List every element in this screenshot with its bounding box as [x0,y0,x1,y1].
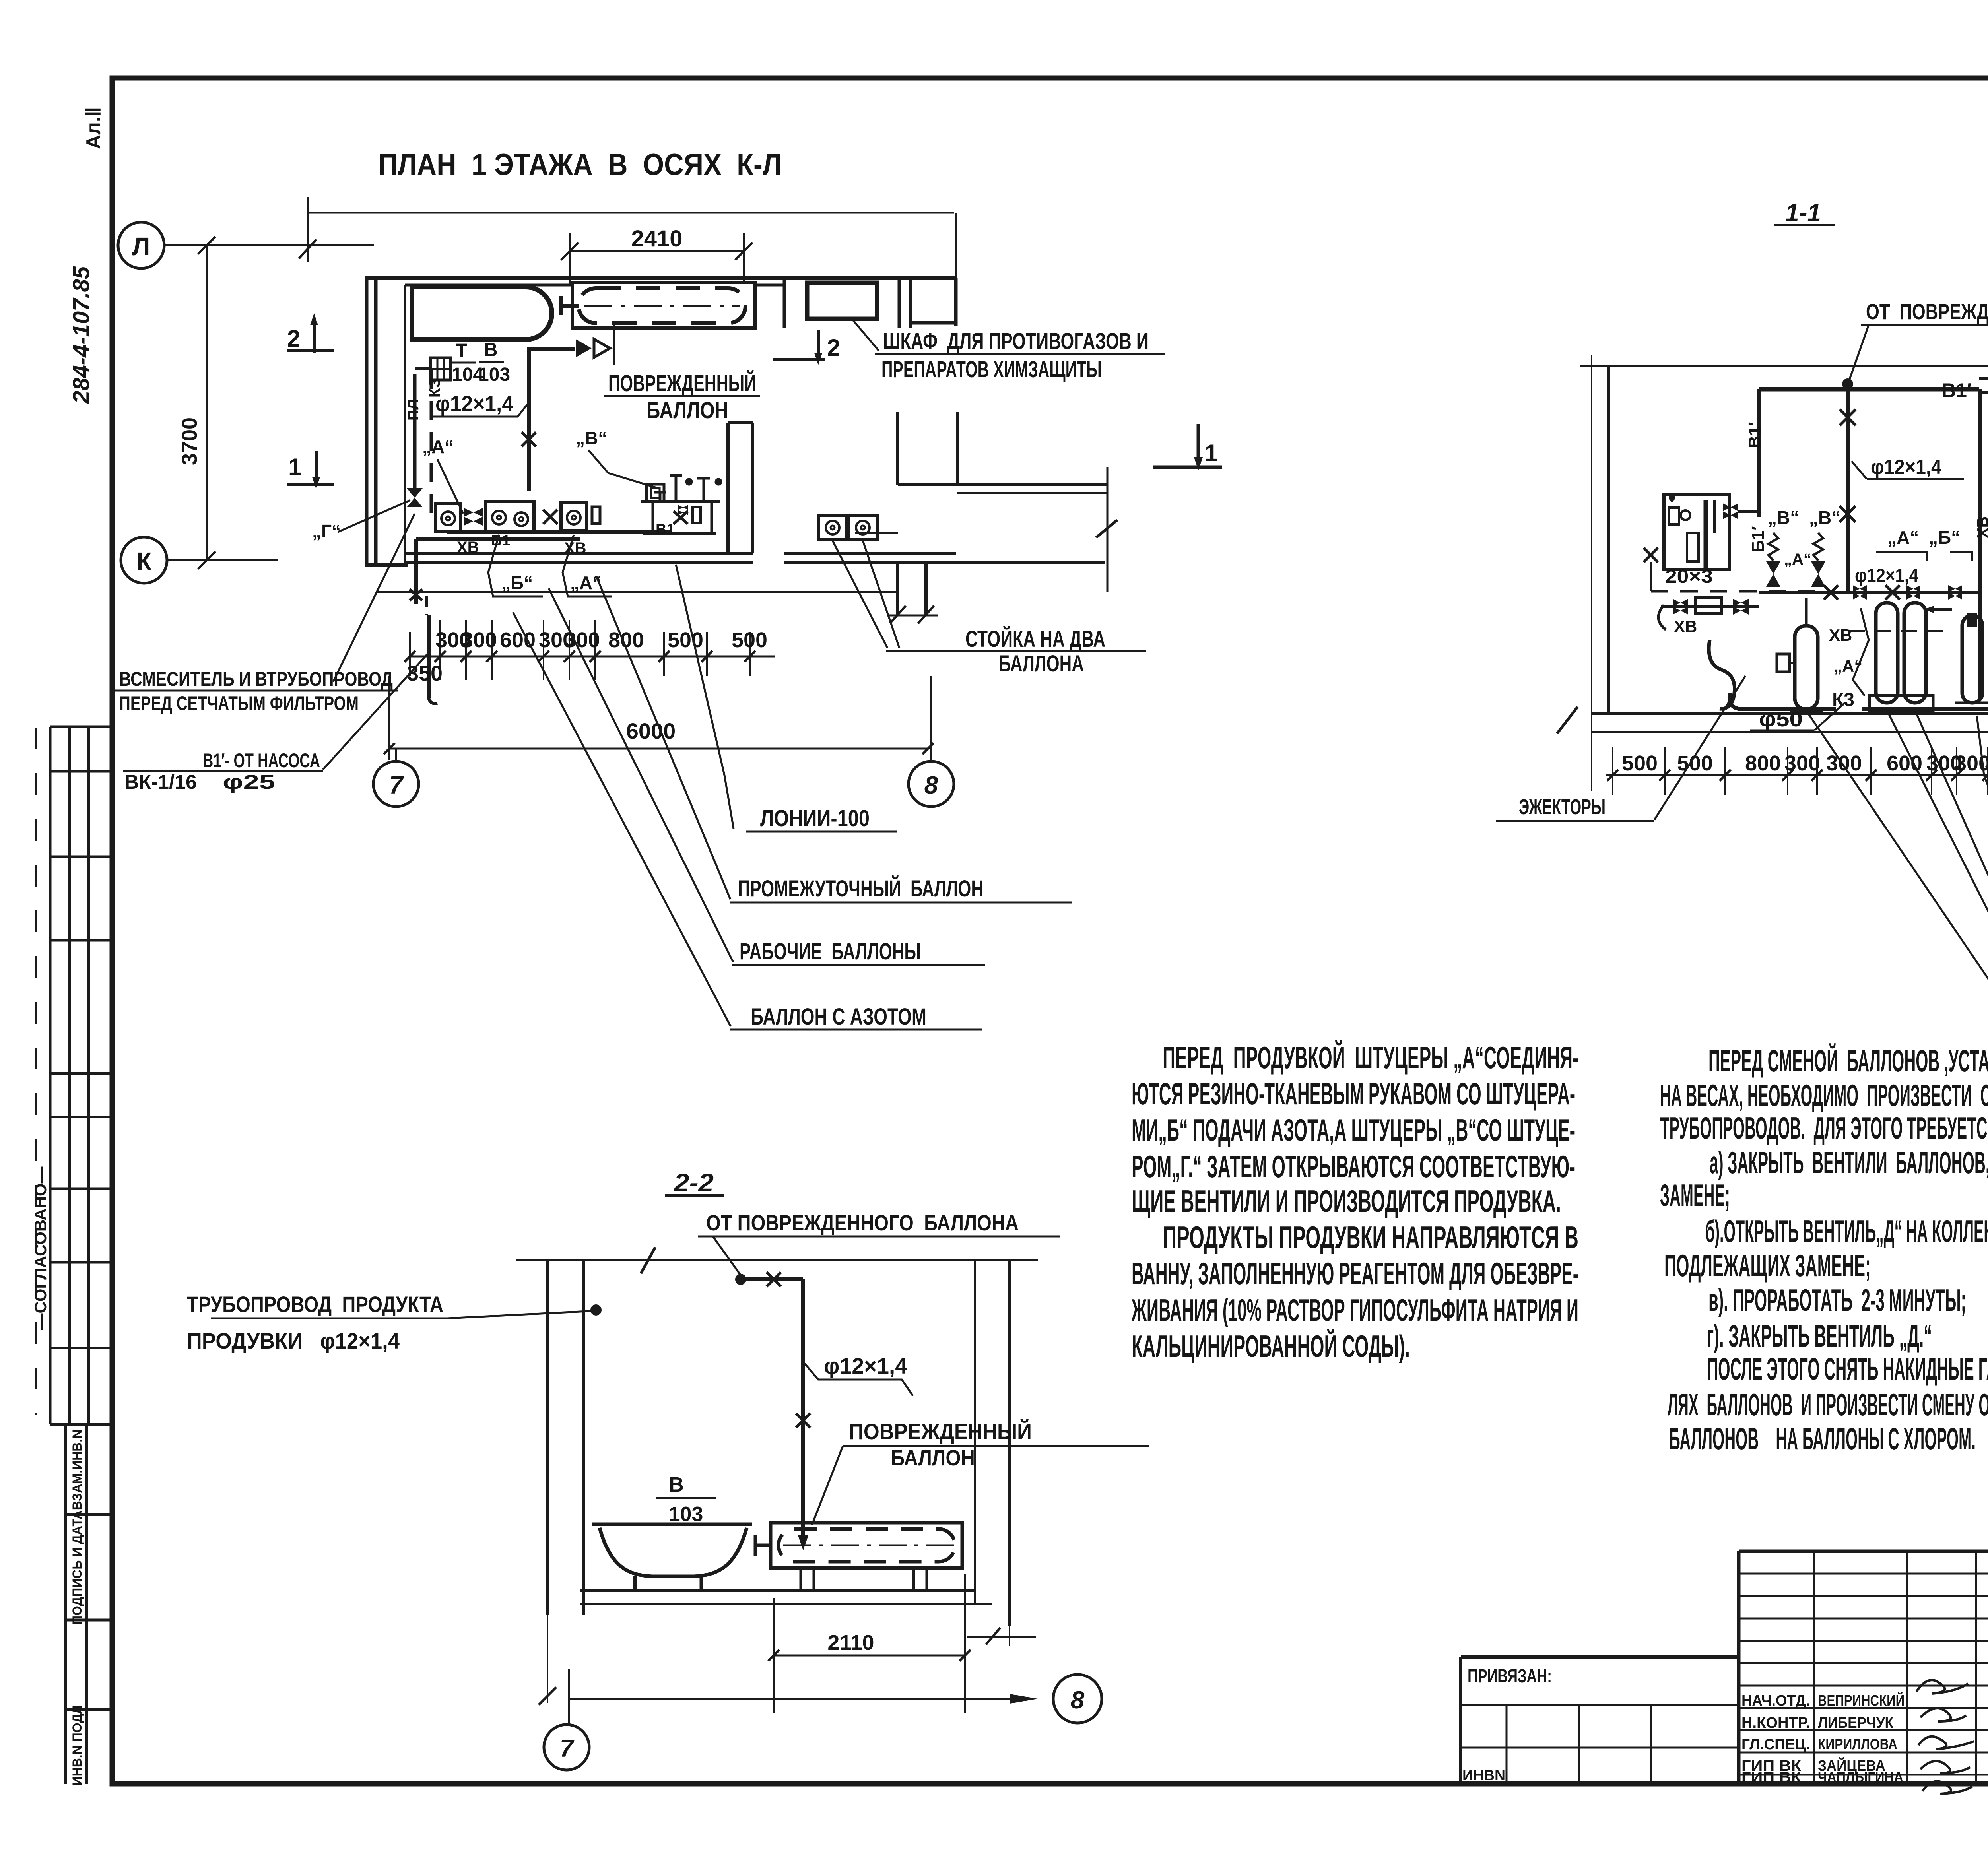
svg-text:φ12×1,4: φ12×1,4 [1855,565,1918,586]
cylinder axis dash-dot [584,305,740,307]
plan pipe B1 [410,532,672,704]
svg-text:1-1: 1-1 [1785,198,1821,227]
svg-text:Ал.Ⅱ: Ал.Ⅱ [82,107,105,149]
svg-text:БАЛЛОН: БАЛЛОН [646,398,728,423]
svg-text:ПРЕПАРАТОВ ХИМЗАЩИТЫ: ПРЕПАРАТОВ ХИМЗАЩИТЫ [881,357,1102,382]
X mark left of rack [1644,548,1658,562]
svg-text:„Б“: „Б“ [1929,527,1960,548]
water heater rack 20x3 [1664,495,1729,569]
svg-text:В1′: В1′ [1941,379,1972,402]
svg-text:БАЛЛОН С АЗОТОМ: БАЛЛОН С АЗОТОМ [751,1004,926,1030]
drain pipe K3 [1730,693,1746,709]
svg-text:2110: 2110 [827,1631,874,1655]
svg-text:ОТ ПОВРЕЖДЕННОГО БАЛЛОНА: ОТ ПОВРЕЖДЕННОГО БАЛЛОНА [706,1210,1019,1235]
svg-text:ЧАПЛЫГИНА: ЧАПЛЫГИНА [1818,1769,1903,1786]
floor lines 2-2 [580,1589,975,1592]
svg-text:500: 500 [732,628,767,652]
svg-text:СТОЙКА НА ДВА: СТОЙКА НА ДВА [965,626,1105,652]
stub connections with dots [1979,377,1988,380]
svg-text:ЩИЕ ВЕНТИЛИ И ПРОИЗВОДИТСЯ ПРО: ЩИЕ ВЕНТИЛИ И ПРОИЗВОДИТСЯ ПРОДУВКА. [1132,1184,1561,1219]
left wall 2-2 [546,1260,549,1615]
top extension line of plan [307,197,309,262]
svg-text:ВЕПРИНСКИЙ: ВЕПРИНСКИЙ [1818,1691,1905,1709]
svg-text:284-4-107.85: 284-4-107.85 [68,266,94,404]
privyazan box [1461,1655,1739,1659]
svg-text:Б1: Б1 [491,532,510,549]
svg-text:ПЛ: ПЛ [405,399,422,421]
small dim right [967,1626,1036,1646]
axis circle Л [118,222,164,268]
svg-text:ПОДЛЕЖАЩИХ ЗАМЕНЕ;: ПОДЛЕЖАЩИХ ЗАМЕНЕ; [1664,1248,1871,1283]
svg-text:РАБОЧИЕ БАЛЛОНЫ: РАБОЧИЕ БАЛЛОНЫ [740,939,921,964]
lower stamp table inv columns [64,1424,67,1784]
svg-text:ПОВРЕЖДЕННЫЙ: ПОВРЕЖДЕННЫЙ [849,1419,1032,1444]
svg-text:Н.КОНТР.: Н.КОНТР. [1741,1715,1810,1731]
ceiling line 2-2 [516,1259,1038,1261]
svg-text:103: 103 [478,364,510,385]
svg-text:300: 300 [1784,751,1820,775]
left margin dashed fold line [35,728,37,1415]
junction dot on top pipe [1842,378,1853,390]
svg-text:НА ВЕСАХ, НЕОБХОДИМО ПРОИЗВЕС: НА ВЕСАХ, НЕОБХОДИМО ПРОИЗВЕСТИ ОТСОС ХЛ… [1660,1078,1988,1113]
section mark 2 left [287,321,334,353]
svg-text:„А“: „А“ [1887,527,1919,548]
signature grid verticals [1813,1551,1815,1784]
svg-text:К: К [136,547,152,576]
axis circle 8 right 2-2 [1053,1675,1102,1723]
right pier walls [896,412,899,485]
svg-text:БАЛЛОНОВ НА БАЛЛОНЫ С ХЛОРО: БАЛЛОНОВ НА БАЛЛОНЫ С ХЛОРОМ. [1669,1421,1976,1456]
section left wall [1607,366,1610,713]
svg-text:1: 1 [288,454,301,480]
section mark 1 right [1153,424,1222,467]
svg-text:Л: Л [132,232,150,261]
svg-text:2: 2 [287,325,300,352]
svg-text:8: 8 [1071,1686,1085,1714]
manifold over cylinders [1759,585,1980,600]
interior wall pier middle [726,423,730,553]
left approval stamp table [49,727,52,1424]
axis circle 7 under 2-2 [544,1725,589,1770]
double arrowheads to cylinder [576,339,592,357]
cylinder neck fitting [561,304,579,308]
bathtub section [592,1524,752,1590]
svg-text:500: 500 [668,628,703,652]
plan pipes left risers [415,369,431,513]
svg-text:3700: 3700 [178,417,202,465]
right wall 2-2 [974,1260,976,1604]
damaged cylinder dashed outline [579,288,745,323]
plan outer left wall [365,276,369,567]
svg-text:ТРУБОПРОВОДОВ. ДЛЯ ЭТОГО ТРЕБ: ТРУБОПРОВОДОВ. ДЛЯ ЭТОГО ТРЕБУЕТСЯ: [1660,1110,1988,1145]
svg-text:ПЕРЕД ПРОДУВКОЙ ШТУЦЕРЫ „А“С: ПЕРЕД ПРОДУВКОЙ ШТУЦЕРЫ „А“СОЕДИНЯ- [1163,1040,1578,1075]
svg-text:„А“: „А“ [1784,551,1811,568]
left arrow into cylinders [1924,606,1934,613]
dim 6000 [384,676,934,760]
svg-text:φ12×1,4: φ12×1,4 [824,1353,907,1378]
title block outline [1739,1550,1988,1553]
damaged cylinder niche box [572,283,755,328]
damaged cylinder on stand 2-2 [580,1523,992,1604]
svg-text:г). ЗАКРЫТЬ ВЕНТИЛЬ „Д.“: г). ЗАКРЫТЬ ВЕНТИЛЬ „Д.“ [1707,1318,1932,1353]
section ceiling [1580,365,1988,367]
axis line to circle 8 [569,1698,1018,1700]
svg-text:300: 300 [1826,751,1862,775]
stand label leaders [833,541,887,648]
svg-text:ПРИВЯЗАН:: ПРИВЯЗАН: [1468,1666,1552,1687]
svg-text:„В“: „В“ [576,428,607,448]
scale platform 3 [561,503,600,531]
working cylinders [1849,603,1948,712]
svg-text:„В“: „В“ [1809,507,1840,528]
main vent pipe with arrows [522,347,575,491]
svg-text:2410: 2410 [631,226,682,252]
svg-text:Б1′: Б1′ [1748,526,1768,553]
valve on riser [407,488,423,507]
ejector assembly [1658,598,1759,630]
dot on pipe product line [590,1304,602,1316]
plan dimension row 350..500 [410,620,775,680]
svg-text:ПРОМЕЖУТОЧНЫЙ БАЛЛОН: ПРОМЕЖУТОЧНЫЙ БАЛЛОН [738,876,983,902]
svg-text:ВСМЕСИТЕЛЬ И ВТРУБОПРОВОД: ВСМЕСИТЕЛЬ И ВТРУБОПРОВОД [119,668,393,690]
signature names [1741,1691,1905,1786]
scale platform 2 double [486,502,557,532]
svg-text:„В“: „В“ [1768,507,1799,528]
left extension tick 2-2 [539,1615,556,1705]
svg-text:ХВ: ХВ [1974,516,1988,538]
svg-text:ТРУБОПРОВОД ПРОДУКТА: ТРУБОПРОВОД ПРОДУКТА [187,1292,443,1317]
svg-text:ГЛ.СПЕЦ.: ГЛ.СПЕЦ. [1741,1736,1810,1753]
svg-text:В1′: В1′ [1745,422,1765,448]
svg-text:800: 800 [1745,751,1781,775]
svg-text:ПЕРЕД СЕТЧАТЫМ ФИЛЬТРОМ: ПЕРЕД СЕТЧАТЫМ ФИЛЬТРОМ [119,692,359,714]
bathtub plan [412,287,552,340]
svg-text:300: 300 [461,628,497,652]
axis line Л [164,244,374,246]
svg-text:ЭЖЕКТОРЫ: ЭЖЕКТОРЫ [1519,795,1606,819]
wall stub below corridor [896,564,899,615]
svg-text:ЛИБЕРЧУК: ЛИБЕРЧУК [1818,1715,1894,1731]
dim line 3700 between axes [206,245,208,560]
blow-off pipe 2-2 [735,1274,746,1285]
gas-mask cabinet [807,283,877,319]
leader to cabinet label [853,320,879,351]
svg-text:2-2: 2-2 [674,1168,714,1197]
svg-text:Т: Т [456,340,467,361]
cold water dashed line [1651,590,1833,593]
svg-text:ПЛАН 1 ЭТАЖА В ОСЯХ К-Л: ПЛАН 1 ЭТАЖА В ОСЯХ К-Л [378,148,782,182]
svg-text:—СОГЛАСОВАНО—: —СОГЛАСОВАНО— [31,1167,50,1330]
svg-text:„А“: „А“ [570,572,602,593]
svg-text:ПРОДУКТЫ ПРОДУВКИ НАПРАВЛЯЮТСЯ: ПРОДУКТЫ ПРОДУВКИ НАПРАВЛЯЮТСЯ В [1163,1220,1578,1255]
svg-text:НАЧ.ОТД.: НАЧ.ОТД. [1741,1692,1810,1709]
plan interior left wall line [404,285,406,563]
axis line К [167,559,278,561]
svg-text:ЮТСЯ РЕЗИНО-ТКАНЕВЫМ РУКАВОМ С: ЮТСЯ РЕЗИНО-ТКАНЕВЫМ РУКАВОМ СО ШТУЦЕРА- [1132,1076,1575,1111]
svg-text:БАЛЛОН: БАЛЛОН [891,1445,975,1470]
signatures squiggles [1916,1680,1974,1794]
svg-text:600: 600 [500,628,536,652]
section mark 1 left [287,451,334,484]
center riser pipe [1840,384,1856,591]
svg-text:350: 350 [407,662,443,685]
svg-text:2: 2 [827,334,840,361]
svg-text:„А“: „А“ [422,437,454,457]
svg-text:В1: В1 [656,521,675,538]
signature grid rows [1739,1573,1988,1575]
svg-text:20×3: 20×3 [1665,566,1713,587]
svg-text:В1′- ОТ НАСОСА: В1′- ОТ НАСОСА [203,749,320,772]
svg-text:МИ„Б“ ПОДАЧИ АЗОТА,А ШТУЦЕРЫ „: МИ„Б“ ПОДАЧИ АЗОТА,А ШТУЦЕРЫ „В“СО ШТУЦЕ… [1132,1112,1575,1147]
svg-text:ЗАМЕНЕ;: ЗАМЕНЕ; [1660,1178,1730,1213]
axis circle К [121,537,167,583]
svg-text:ХВ: ХВ [1674,617,1697,636]
svg-text:φ12×1,4: φ12×1,4 [1871,456,1941,479]
svg-text:1: 1 [1205,440,1218,466]
svg-text:ВК-1/16: ВК-1/16 [124,771,197,793]
corridor bottom line [376,591,898,593]
svg-text:500: 500 [1622,751,1658,775]
leader lines to lower labels [676,565,734,829]
svg-text:БАЛЛОНА: БАЛЛОНА [999,651,1084,677]
section dim row [1606,747,1988,795]
rack outlet valve [1723,503,1738,519]
svg-text:ГИП ВК: ГИП ВК [1741,1769,1802,1786]
svg-text:ЛЯХ БАЛЛОНОВ И ПРОИЗВЕСТИ СМ: ЛЯХ БАЛЛОНОВ И ПРОИЗВЕСТИ СМЕНУ ОПОРОЖНЕ… [1668,1387,1988,1422]
svg-text:„Б“: „Б“ [501,572,533,593]
svg-text:а) ЗАКРЫТЬ ВЕНТИЛИ БАЛЛОНОВ,: а) ЗАКРЫТЬ ВЕНТИЛИ БАЛЛОНОВ, ПОДЛЕЖАЩИХ [1710,1145,1988,1180]
svg-text:φ50: φ50 [1759,707,1803,731]
svg-text:103: 103 [669,1503,703,1526]
thermometer boss symbol T 104/103 [431,358,450,380]
LONII-100 dosing rack [641,475,722,533]
svg-text:КАЛЬЦИНИРОВАННОЙ СОДЫ).: КАЛЬЦИНИРОВАННОЙ СОДЫ). [1132,1329,1410,1364]
intermediate cylinder [1777,598,1823,710]
svg-text:ПЕРЕД СМЕНОЙ БАЛЛОНОВ ,УСТАНО: ПЕРЕД СМЕНОЙ БАЛЛОНОВ ,УСТАНОВЛЕННЫХ [1708,1043,1988,1078]
svg-text:ВЗАМ.ИНВ.N: ВЗАМ.ИНВ.N [70,1430,84,1510]
svg-text:7: 7 [560,1735,575,1762]
axis circle 8 under plan [909,761,954,807]
svg-text:б).ОТКРЫТЬ ВЕНТИЛЬ„Д“ НА КОЛЛЕ: б).ОТКРЫТЬ ВЕНТИЛЬ„Д“ НА КОЛЛЕКТОРЕ БАЛЛ… [1705,1214,1988,1249]
left extension line [1591,355,1592,791]
svg-text:8: 8 [924,772,938,799]
svg-text:ХВ: ХВ [1829,626,1852,644]
svg-text:φ12×1,4: φ12×1,4 [435,391,513,416]
right extension line with break [1107,467,1109,592]
svg-text:7: 7 [389,772,404,799]
top pipe B1 [1759,387,1979,392]
section floor [1592,712,1988,715]
svg-text:ОТ ПОВРЕЖДЕННОГО БАЛЛОНА: ОТ ПОВРЕЖДЕННОГО БАЛЛОНА [1866,299,1988,324]
svg-text:в). ПРОРАБОТАТЬ 2-3 МИНУТЫ;: в). ПРОРАБОТАТЬ 2-3 МИНУТЫ; [1708,1283,1966,1318]
svg-text:„Г“: „Г“ [312,521,341,541]
svg-text:ИНВN: ИНВN [1462,1767,1505,1784]
svg-text:К3: К3 [1832,689,1854,710]
svg-text:ВАННУ, ЗАПОЛНЕННУЮ РЕАГЕНТОМ Д: ВАННУ, ЗАПОЛНЕННУЮ РЕАГЕНТОМ ДЛЯ ОБЕЗВРЕ… [1132,1256,1578,1291]
siphon hook [1709,640,1735,709]
svg-text:ЛОНИИ-100: ЛОНИИ-100 [760,805,870,831]
plan room bottom wall [405,552,753,555]
axis circle 7 under plan [395,749,397,761]
svg-text:В: В [669,1473,684,1496]
svg-text:В: В [484,340,498,361]
plan top wall [367,276,956,280]
svg-text:350: 350 [1985,751,1988,775]
dim 2110 [768,1574,971,1713]
nitrogen cylinder [1955,615,1988,703]
svg-text:ПРОДУВКИ φ12×1,4: ПРОДУВКИ φ12×1,4 [187,1328,400,1353]
svg-text:КИРИЛЛОВА: КИРИЛЛОВА [1818,1736,1897,1753]
svg-text:ИНВ.N ПОДЛ: ИНВ.N ПОДЛ [70,1705,84,1786]
svg-text:ХВ: ХВ [457,539,479,556]
svg-text:6000: 6000 [626,718,676,743]
svg-text:ПОСЛЕ ЭТОГО СНЯТЬ НАКИДНЫЕ ГАЙ: ПОСЛЕ ЭТОГО СНЯТЬ НАКИДНЫЕ ГАЙКИ НА ВЕНТ… [1707,1351,1988,1386]
niche sides for damaged cylinder [783,278,786,328]
scale platform 1 [436,504,460,532]
svg-text:ПОВРЕЖДЕННЫЙ: ПОВРЕЖДЕННЫЙ [608,371,756,396]
section mark 2 right [773,330,825,360]
valve between platforms [464,508,483,526]
svg-text:ЖИВАНИЯ (10% РАСТВОР ГИПОСУЛЬФ: ЖИВАНИЯ (10% РАСТВОР ГИПОСУЛЬФИТА НАТРИЯ… [1131,1292,1578,1327]
dim 2410 [561,233,753,284]
leader to label повреждённый баллон [613,323,615,365]
svg-text:РОМ„Г.“ ЗАТЕМ ОТКРЫВАЮТСЯ СООТ: РОМ„Г.“ ЗАТЕМ ОТКРЫВАЮТСЯ СООТВЕТСТВУЮ- [1132,1149,1575,1184]
cylinder stand for two cylinders [818,515,898,540]
svg-text:ПОДПИСЬ И ДАТА: ПОДПИСЬ И ДАТА [70,1510,84,1625]
svg-text:ШКАФ ДЛЯ ПРОТИВОГАЗОВ И: ШКАФ ДЛЯ ПРОТИВОГАЗОВ И [883,328,1149,354]
svg-text:φ25: φ25 [223,771,275,793]
